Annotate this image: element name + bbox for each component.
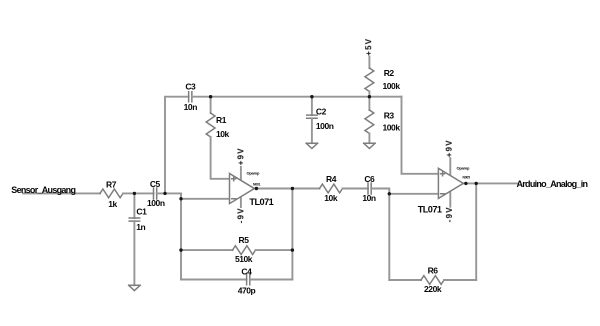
wire U1 feedback left vertical <box>180 199 182 280</box>
wire node B up to top rail <box>165 97 189 194</box>
svg-text:C1: C1 <box>136 207 147 217</box>
wire U2 feedback right vertical <box>475 183 477 280</box>
ground under C1 <box>129 285 140 290</box>
svg-text:R2: R2 <box>384 68 395 78</box>
op-amp U2 input polarity marks <box>441 172 445 194</box>
svg-text:Opamp: Opamp <box>457 165 471 170</box>
svg-text:Arduino_Analog_in: Arduino_Analog_in <box>517 179 588 189</box>
resistor R1 <box>210 97 212 113</box>
svg-text:1k: 1k <box>108 199 117 209</box>
capacitor C6 <box>368 183 371 194</box>
capacitor C3 <box>189 92 192 102</box>
svg-text:220k: 220k <box>424 284 442 294</box>
wire R7 to node A <box>123 192 154 194</box>
svg-text:R6: R6 <box>428 266 439 276</box>
svg-text:+9V: +9V <box>445 139 454 157</box>
svg-text:Opamp: Opamp <box>247 170 261 175</box>
ground under R3 <box>364 143 375 148</box>
svg-text:C6: C6 <box>364 174 375 184</box>
op-amp U1 body <box>230 174 255 204</box>
svg-text:10k: 10k <box>324 193 338 203</box>
svg-text:C2: C2 <box>316 107 327 117</box>
wire C5 to node B <box>157 192 181 194</box>
wire top rail down to U2 noninverting input <box>402 97 439 174</box>
svg-text:C4: C4 <box>241 267 252 277</box>
svg-text:N005: N005 <box>463 176 471 180</box>
wire U2 output to Arduino_Analog_in <box>463 182 517 184</box>
resistor R4 <box>292 188 319 190</box>
resistor R2 <box>368 57 370 68</box>
capacitor C2 <box>311 97 313 115</box>
op-amp U2 body <box>438 168 463 198</box>
svg-text:100k: 100k <box>383 123 401 133</box>
wire step down to inverting input <box>181 193 230 198</box>
capacitor C5 <box>154 188 157 199</box>
svg-text:R3: R3 <box>384 111 395 121</box>
svg-text:100k: 100k <box>383 81 401 91</box>
svg-text:+5V: +5V <box>364 38 373 56</box>
svg-text:R7: R7 <box>106 179 117 189</box>
ground under C2 <box>306 143 317 148</box>
svg-text:R4: R4 <box>326 174 337 184</box>
svg-text:R5: R5 <box>239 235 250 245</box>
svg-text:10n: 10n <box>184 102 198 112</box>
capacitor C4 <box>181 279 247 281</box>
resistor R7 <box>100 189 123 198</box>
svg-text:TL071: TL071 <box>418 205 442 215</box>
svg-text:10k: 10k <box>216 129 230 139</box>
wire U1 output <box>254 188 292 190</box>
svg-text:Sensor_Ausgang: Sensor_Ausgang <box>11 185 75 195</box>
op-amp U1 input polarity marks <box>232 177 236 199</box>
svg-text:1n: 1n <box>136 222 145 232</box>
op-amp U2 power stubs <box>449 158 451 207</box>
resistor R3 <box>368 97 370 110</box>
svg-text:-9V: -9V <box>445 206 454 222</box>
resistor R5 <box>181 249 233 251</box>
svg-text:+9V: +9V <box>236 147 245 165</box>
svg-text:100n: 100n <box>316 121 334 131</box>
svg-text:510k: 510k <box>235 254 253 264</box>
capacitor C1 <box>133 193 135 218</box>
svg-text:C3: C3 <box>185 82 196 92</box>
svg-text:C5: C5 <box>150 179 161 189</box>
svg-text:-9V: -9V <box>236 207 245 223</box>
svg-text:TL071: TL071 <box>249 197 273 207</box>
resistor R6 <box>389 279 421 281</box>
wire U2 feedback left vertical <box>388 194 390 280</box>
svg-text:R1: R1 <box>216 115 227 125</box>
svg-text:10n: 10n <box>362 193 376 203</box>
wire C6 to U2 inverting input <box>371 189 438 194</box>
wire U1 feedback right vertical <box>291 189 293 280</box>
svg-text:470p: 470p <box>238 285 256 295</box>
node Sensor_Ausgang wire <box>23 192 100 194</box>
svg-text:N001: N001 <box>253 182 261 186</box>
svg-text:100n: 100n <box>147 198 165 208</box>
wire top rail <box>192 96 402 98</box>
op-amp U1 power stubs <box>240 167 242 207</box>
